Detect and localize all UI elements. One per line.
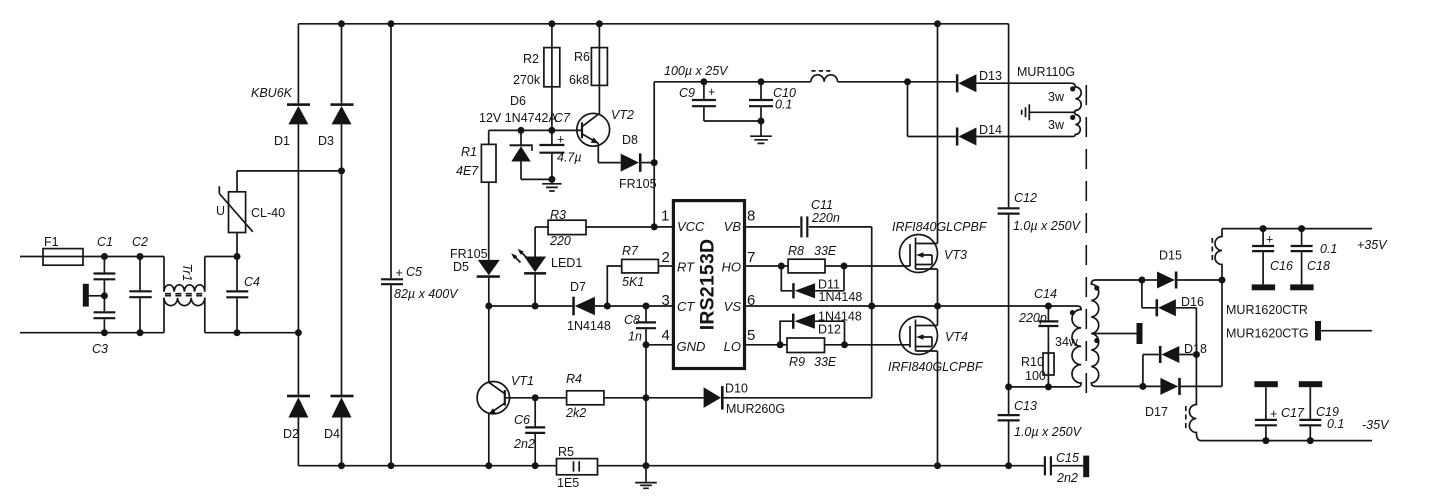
svg-text:33E: 33E <box>814 355 837 369</box>
svg-text:IRFI840GLCPBF: IRFI840GLCPBF <box>892 220 988 234</box>
diode D3 <box>341 24 343 104</box>
wire aux centre tap <box>1029 111 1072 113</box>
svg-text:82µ x 400V: 82µ x 400V <box>394 287 459 301</box>
sideways ground at aux centre tap <box>1022 104 1030 120</box>
resistor R9 <box>787 338 825 353</box>
svg-text:R4: R4 <box>566 372 582 386</box>
svg-text:RT: RT <box>677 260 695 275</box>
svg-text:R1: R1 <box>461 145 477 159</box>
LED1 arrows <box>513 255 521 263</box>
phasing dot secondary upper <box>1094 285 1099 290</box>
svg-text:D8: D8 <box>622 133 638 147</box>
svg-text:D2: D2 <box>283 427 299 441</box>
phasing dot secondary lower <box>1094 338 1099 343</box>
svg-text:R3: R3 <box>550 208 566 222</box>
node D8 cathode <box>651 159 658 166</box>
svg-text:34w: 34w <box>1055 335 1079 349</box>
svg-text:8: 8 <box>747 208 755 225</box>
svg-text:VB: VB <box>724 219 742 234</box>
svg-text:4E7: 4E7 <box>456 164 479 178</box>
node +35V rail junctions <box>1260 225 1267 232</box>
svg-text:5: 5 <box>747 327 755 344</box>
diode D5 FR105 <box>478 260 500 275</box>
svg-text:CT: CT <box>677 299 695 314</box>
wire CT node row left <box>489 305 573 307</box>
wire +35V rail <box>1222 228 1372 230</box>
node LO row junctions <box>777 341 784 348</box>
svg-text:33E: 33E <box>814 244 837 258</box>
svg-text:D15: D15 <box>1159 249 1182 263</box>
svg-text:D13: D13 <box>979 69 1002 83</box>
wire mid output <box>1321 330 1372 332</box>
svg-text:D17: D17 <box>1145 405 1168 419</box>
svg-text:0.1: 0.1 <box>775 98 792 112</box>
svg-text:VS: VS <box>724 299 742 314</box>
resistor R4 <box>567 391 604 405</box>
svg-text:D3: D3 <box>318 134 334 148</box>
svg-text:3w: 3w <box>1048 118 1065 132</box>
svg-text:LO: LO <box>724 339 741 354</box>
wire primary bottom row <box>1009 386 1077 388</box>
svg-text:LED1: LED1 <box>551 256 582 270</box>
capacitor C1 <box>103 257 105 273</box>
node VCC row junctions <box>518 127 525 134</box>
node CL40 to D3 <box>338 167 345 174</box>
svg-text:-35V: -35V <box>1362 418 1390 432</box>
svg-text:220n: 220n <box>811 211 840 225</box>
wire VT1 base row <box>505 397 567 399</box>
svg-text:2k2: 2k2 <box>565 406 586 420</box>
phasing dot primary <box>1070 310 1075 315</box>
wire VCC node row <box>489 129 583 131</box>
PE terminal bar <box>83 284 89 307</box>
svg-text:VT4: VT4 <box>945 330 968 344</box>
svg-text:U: U <box>216 204 225 218</box>
transformer secondary lower winding <box>1091 334 1143 387</box>
svg-text:+: + <box>396 266 403 280</box>
capacitor C8 <box>645 306 647 321</box>
Tr1 core dashes <box>165 293 204 295</box>
pin 4 GND <box>646 344 673 346</box>
svg-text:Tr1: Tr1 <box>180 264 194 282</box>
resistor R1 <box>488 130 490 144</box>
aux winding 3w upper <box>1071 83 1081 112</box>
wire IC ground column <box>645 345 647 466</box>
capacitor C2 <box>139 257 141 291</box>
svg-text:6k8: 6k8 <box>569 73 589 87</box>
wire half-bridge drain column <box>937 24 939 244</box>
capacitor C9 electrolytic <box>703 82 705 99</box>
svg-text:VT3: VT3 <box>944 248 967 262</box>
pin 6 VS <box>745 305 1078 307</box>
wire PE stub <box>89 295 105 297</box>
wire bottom rail left <box>298 465 556 467</box>
wire D10 riser to VS <box>871 306 873 398</box>
output choke +35V <box>1215 229 1222 280</box>
capacitor C14 snubber <box>1047 306 1049 320</box>
terminal bar mid output <box>1315 321 1321 341</box>
resistor R6 <box>598 24 600 115</box>
node secondary end B <box>1139 383 1146 390</box>
svg-text:D4: D4 <box>324 427 340 441</box>
svg-text:FR105: FR105 <box>450 247 488 261</box>
fuse F1 <box>43 249 83 266</box>
wire VCC vertical <box>653 82 655 227</box>
svg-text:220p: 220p <box>1018 311 1047 325</box>
pin 1 VCC <box>654 226 673 228</box>
node AC bottom junctions <box>101 329 108 336</box>
svg-text:1N4148: 1N4148 <box>818 310 862 324</box>
svg-text:VT2: VT2 <box>611 108 634 122</box>
node primary bottom row <box>1005 383 1012 390</box>
svg-text:3: 3 <box>662 292 670 309</box>
zener diode D6 1N4742A <box>520 130 522 146</box>
svg-text:IRFI840GLCPBF: IRFI840GLCPBF <box>888 360 984 374</box>
wire AC line bottom <box>20 332 164 334</box>
resistor R2 <box>551 24 553 131</box>
svg-text:C14: C14 <box>1034 287 1057 301</box>
wire secondary centre tap <box>1091 333 1136 335</box>
svg-text:HO: HO <box>722 260 742 275</box>
svg-text:FR105: FR105 <box>619 177 657 191</box>
capacitor C10 <box>760 82 762 99</box>
diode D15 MUR1620CTR <box>1142 279 1157 281</box>
diode D10 MUR260G <box>646 397 704 399</box>
svg-text:C18: C18 <box>1307 259 1330 273</box>
svg-text:C15: C15 <box>1056 451 1079 465</box>
svg-text:270k: 270k <box>513 73 541 87</box>
transistor VT3 IRFI840GLCPBF <box>900 235 938 273</box>
capacitor C17 electrolytic <box>1254 381 1277 387</box>
aux winding 3w lower <box>1071 112 1080 136</box>
node AC top junctions <box>101 253 108 260</box>
capacitor C5 electrolytic <box>390 24 392 278</box>
svg-text:1N4148: 1N4148 <box>819 290 863 304</box>
svg-text:C5: C5 <box>406 265 422 279</box>
svg-text:MUR1620CTR: MUR1620CTR <box>1226 303 1308 317</box>
svg-text:MUR260G: MUR260G <box>726 402 785 416</box>
diode D18 MUR1620CTG <box>1143 354 1159 356</box>
svg-text:IRS2153D: IRS2153D <box>697 239 719 331</box>
diode D13 MUR110G <box>956 74 959 92</box>
svg-text:VT1: VT1 <box>511 374 534 388</box>
transistor VT1 <box>488 306 490 383</box>
svg-text:C8: C8 <box>624 313 640 327</box>
capacitor C19 <box>1299 381 1322 387</box>
transistor VT2 <box>577 113 610 146</box>
svg-text:C12: C12 <box>1014 191 1037 205</box>
ground under C7 <box>551 179 553 183</box>
diode D16 MUR1620CTG <box>1142 280 1156 308</box>
svg-text:100: 100 <box>1025 369 1046 383</box>
node D16 D18 anode <box>1193 351 1200 358</box>
capacitor C4 <box>236 257 238 291</box>
node D15 D17 cathode column <box>1219 277 1226 284</box>
svg-text:R7: R7 <box>622 244 639 258</box>
wire aux rail right <box>838 81 956 83</box>
svg-text:3w: 3w <box>1048 90 1065 104</box>
wire aux +25V rail <box>654 81 811 83</box>
diode D14 MUR110G <box>956 128 959 146</box>
svg-text:C17: C17 <box>1281 406 1305 420</box>
resistor R8 <box>788 259 825 273</box>
svg-text:C3: C3 <box>92 342 108 356</box>
wire CL-40 to D3/D4 node <box>237 170 342 172</box>
svg-text:2n2: 2n2 <box>1056 471 1078 485</box>
wire top rail <box>298 23 1008 25</box>
capacitor C3 <box>94 312 116 318</box>
terminal bar centre tap <box>1137 323 1143 344</box>
ground under IC gnd column <box>645 466 647 482</box>
node bottom rail junctions <box>338 462 345 469</box>
capacitor C7 electrolytic <box>551 130 553 144</box>
svg-text:C16: C16 <box>1270 259 1293 273</box>
phasing dot aux upper <box>1070 86 1075 91</box>
svg-text:R9: R9 <box>789 355 805 369</box>
svg-text:12V 1N4742A: 12V 1N4742A <box>479 111 558 125</box>
pin 5 LO <box>745 344 788 346</box>
diode D17 MUR1620CTR <box>1143 385 1161 387</box>
svg-text:7: 7 <box>747 249 755 266</box>
svg-text:R2: R2 <box>523 52 539 66</box>
svg-text:+: + <box>1266 233 1273 247</box>
capacitor C11 <box>801 216 807 237</box>
diode D4 <box>331 395 354 398</box>
svg-text:100µ x 25V: 100µ x 25V <box>664 64 729 78</box>
wire D14 branch <box>907 82 909 137</box>
node HO row junctions <box>778 263 785 270</box>
svg-text:R5: R5 <box>558 445 574 459</box>
svg-text:GND: GND <box>677 339 706 354</box>
svg-text:D14: D14 <box>979 123 1002 137</box>
svg-text:1n: 1n <box>628 330 642 344</box>
svg-text:KBU6K: KBU6K <box>251 86 293 100</box>
svg-text:4.7µ: 4.7µ <box>557 151 582 165</box>
resistor R10 <box>1043 353 1054 375</box>
svg-text:C11: C11 <box>811 198 833 212</box>
transformer secondary upper winding <box>1091 280 1142 334</box>
capacitor C18 <box>1301 229 1303 245</box>
svg-text:R8: R8 <box>788 244 804 258</box>
wire AC line top left <box>20 256 164 258</box>
svg-text:MUR1620CTG: MUR1620CTG <box>1226 327 1309 341</box>
transistor VT4 IRFI840GLCPBF <box>937 306 939 326</box>
node VCC pin <box>651 223 658 230</box>
svg-text:C7: C7 <box>554 111 571 125</box>
diode D8 FR105 <box>598 162 620 164</box>
svg-text:D12: D12 <box>818 323 841 337</box>
svg-text:1: 1 <box>661 208 669 225</box>
common-mode choke Tr1 lower winding <box>163 298 165 333</box>
svg-text:C2: C2 <box>132 235 148 249</box>
svg-text:MUR110G: MUR110G <box>1017 65 1075 79</box>
svg-text:R6: R6 <box>574 50 590 64</box>
svg-text:F1: F1 <box>44 235 59 249</box>
node aux rail junctions <box>700 78 707 85</box>
svg-text:D5: D5 <box>453 260 469 274</box>
svg-text:VCC: VCC <box>677 219 705 234</box>
svg-text:+: + <box>557 133 564 147</box>
diode D12 1N4148 <box>780 321 792 345</box>
varistor CL-40 <box>236 233 238 257</box>
terminal bar C15 output <box>1083 456 1089 478</box>
pin 8 VB <box>745 226 800 228</box>
svg-text:+: + <box>708 85 715 99</box>
node C1-C3 midpoint <box>101 292 108 299</box>
svg-text:D6: D6 <box>510 94 526 108</box>
wire AC top right <box>205 256 237 258</box>
svg-text:R10: R10 <box>1021 355 1044 369</box>
diode D1 <box>297 24 299 104</box>
svg-text:0.1: 0.1 <box>1327 417 1344 431</box>
svg-text:1E5: 1E5 <box>557 476 579 490</box>
transformer primary winding 34w <box>1072 306 1081 387</box>
node CT row junctions <box>485 303 492 310</box>
capacitor C12 <box>1008 24 1010 208</box>
svg-text:1.0µ x 250V: 1.0µ x 250V <box>1013 219 1082 233</box>
svg-text:D7: D7 <box>570 280 586 294</box>
output choke -35V <box>1189 355 1201 441</box>
node VS row junctions <box>868 303 875 310</box>
wire bottom rail right <box>598 465 1045 467</box>
svg-text:4: 4 <box>662 327 670 344</box>
svg-text:CL-40: CL-40 <box>251 206 285 220</box>
svg-text:D10: D10 <box>725 382 748 396</box>
ground under C10 <box>760 121 762 136</box>
svg-text:+35V: +35V <box>1357 238 1388 252</box>
svg-text:1.0µ x 250V: 1.0µ x 250V <box>1014 425 1083 439</box>
capacitor C6 <box>534 398 536 427</box>
svg-text:C6: C6 <box>514 413 530 427</box>
capacitor C13 <box>998 415 1020 420</box>
diode D11 1N4148 <box>781 266 792 291</box>
phasing dot aux lower <box>1070 115 1075 120</box>
node -35V rail junctions <box>1262 437 1269 444</box>
svg-text:6: 6 <box>747 292 755 309</box>
common-mode choke Tr1 upper winding <box>163 257 165 292</box>
transformer core dashed line <box>1085 85 1087 400</box>
svg-text:D1: D1 <box>274 134 290 148</box>
node top rail junctions <box>338 20 345 27</box>
pin 7 HO <box>745 265 789 267</box>
svg-text:0.1: 0.1 <box>1320 242 1337 256</box>
svg-text:220: 220 <box>549 234 571 248</box>
svg-text:2n2: 2n2 <box>513 437 535 451</box>
capacitor C16 electrolytic <box>1262 229 1264 245</box>
svg-text:+: + <box>1270 407 1277 421</box>
op-amp U1 IRS2153D body <box>673 201 744 369</box>
svg-text:C1: C1 <box>97 235 113 249</box>
resistor R7 <box>607 266 621 306</box>
wire -35V rail <box>1201 440 1372 442</box>
node R4 D10 row <box>532 394 539 401</box>
wire C9 to C10 bottom <box>704 120 761 122</box>
node GND pin <box>643 341 650 348</box>
svg-text:C4: C4 <box>244 275 260 289</box>
svg-text:D16: D16 <box>1181 295 1204 309</box>
svg-text:C9: C9 <box>679 86 695 100</box>
resistor R5 fusible <box>557 459 598 475</box>
svg-text:1N4148: 1N4148 <box>567 319 611 333</box>
diode D7 1N4148 <box>572 297 575 316</box>
svg-text:C13: C13 <box>1014 399 1037 413</box>
svg-text:2: 2 <box>662 249 670 266</box>
svg-text:5K1: 5K1 <box>622 275 644 289</box>
LED LED1 <box>534 227 536 257</box>
diode D2 <box>287 395 310 398</box>
node secondary end A <box>1138 277 1145 284</box>
capacitor C15 <box>1045 456 1051 475</box>
resistor R3 <box>535 226 548 228</box>
inductor aux choke <box>811 75 838 82</box>
